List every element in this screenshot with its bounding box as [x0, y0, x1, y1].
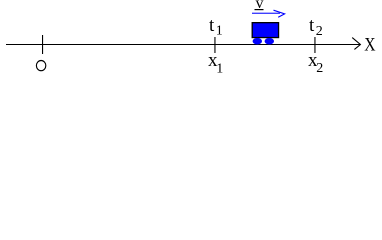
node O origin tick: [42, 35, 43, 54]
velocity vector arrowhead (blue): [274, 10, 285, 17]
svg-text:X: X: [364, 35, 376, 56]
node t1/x1 tick: [214, 37, 215, 53]
X-axis arrowhead: [352, 38, 360, 50]
node O origin label: [36, 61, 45, 71]
svg-text:1: 1: [216, 24, 223, 39]
svg-text:t: t: [309, 15, 315, 36]
wire X-axis line: [6, 44, 361, 45]
svg-text:2: 2: [316, 61, 323, 76]
cart wheel left: [253, 38, 262, 45]
cart wheel right: [265, 38, 274, 45]
svg-text:1: 1: [216, 62, 223, 77]
v underline bar: [255, 9, 264, 10]
node t2/x2 tick: [314, 37, 315, 53]
cart body (blue block): [252, 23, 278, 38]
svg-text:t: t: [209, 15, 215, 36]
velocity vector arrow shaft (blue): [252, 13, 280, 14]
svg-text:2: 2: [316, 24, 323, 39]
